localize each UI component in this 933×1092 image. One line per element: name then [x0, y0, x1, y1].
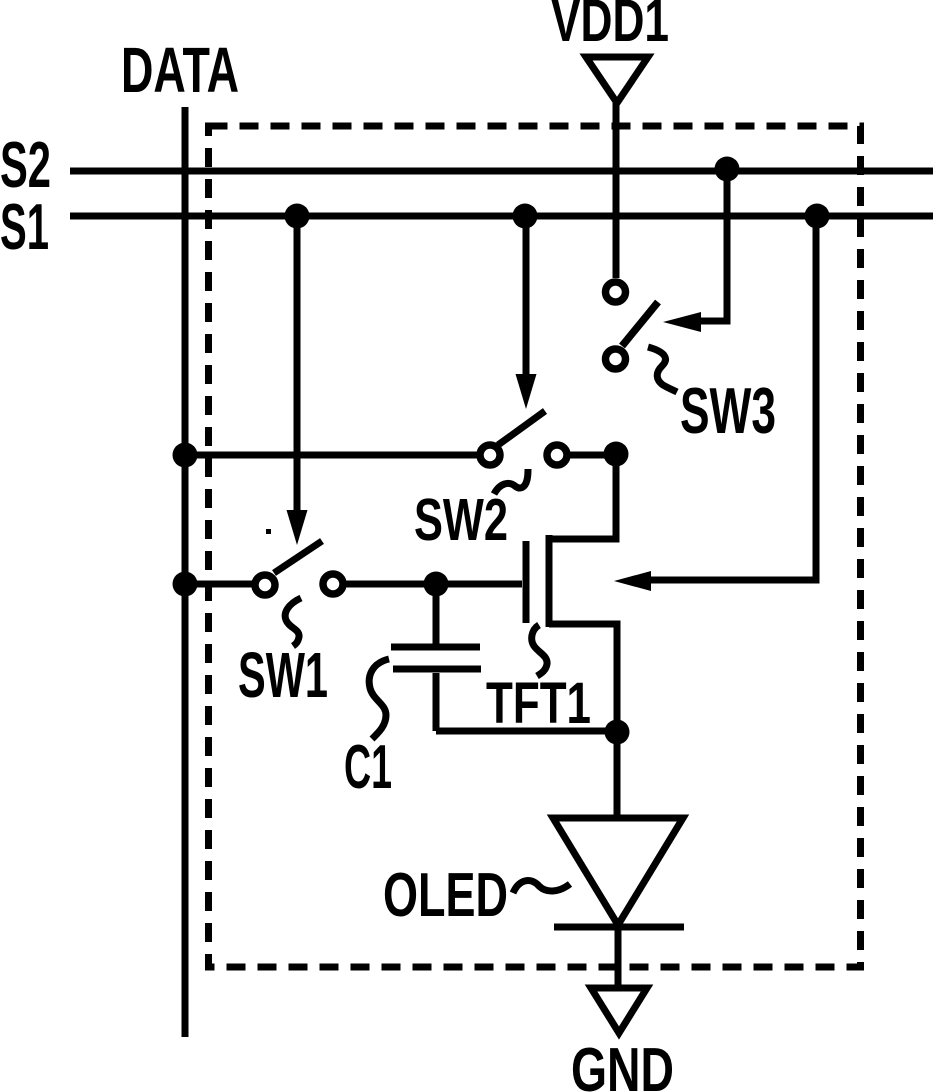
arrowhead into TFT1 — [614, 571, 651, 591]
ground symbol GND — [591, 988, 647, 1033]
wire S1 line — [70, 213, 933, 220]
wire DATA line — [182, 107, 189, 1037]
leader tilde OLED — [513, 881, 570, 893]
wire arrow from S1 down to SW1 — [294, 222, 301, 515]
arrowhead into SW3 — [663, 312, 701, 332]
wire VDD1 to SW3 — [613, 103, 620, 278]
svg-text:OLED: OLED — [383, 861, 508, 930]
switch SW3 top contact — [606, 282, 626, 302]
switch SW2 right contact — [547, 445, 567, 465]
junction on S1 at x817 — [805, 204, 830, 229]
wire C1 to TFT1 source — [436, 728, 617, 735]
diode OLED cathode bar — [554, 924, 684, 931]
svg-text:SW2: SW2 — [414, 487, 508, 553]
wire S2 line — [70, 168, 933, 175]
leader squiggle C1 — [369, 659, 389, 739]
power symbol VDD1 — [586, 57, 648, 103]
leader squiggle SW2 — [494, 469, 528, 494]
wire SW2 to node B — [568, 452, 616, 459]
leader squiggle TFT1 — [532, 625, 547, 676]
arrowhead above SW1 — [287, 510, 308, 545]
pixel boundary dashed box — [209, 126, 861, 967]
junction on S1 at x525 — [513, 204, 538, 229]
wire from S1 down to TFT1 arrow — [650, 222, 816, 580]
junction C1 top — [424, 572, 449, 597]
wire arrow from S1 down to SW2 — [523, 222, 530, 380]
junction node B — [604, 442, 629, 467]
leader squiggle SW3 — [648, 347, 677, 392]
switch SW3 arm — [622, 302, 658, 346]
wire SW1 to TFT1 gate — [344, 581, 522, 588]
leader squiggle SW1 — [285, 598, 301, 646]
arrowhead above SW2 — [516, 374, 537, 409]
junction on S2 — [715, 157, 740, 182]
switch SW2 left contact — [480, 445, 500, 465]
wire junction to OLED — [614, 738, 621, 818]
speck dot — [266, 529, 271, 534]
wire TFT1 source to junction — [549, 624, 617, 733]
junction on DATA at y584 — [173, 572, 198, 597]
capacitor C1 bottom wire — [433, 673, 440, 731]
switch SW1 left contact — [255, 575, 275, 595]
capacitor C1 top plate — [391, 644, 480, 651]
wire DATA to SW2 — [185, 452, 479, 459]
transistor TFT1 gate bar — [523, 541, 530, 623]
junction TFT1 source / OLED anode — [605, 720, 630, 745]
diode OLED triangle — [553, 818, 683, 925]
switch SW2 arm — [498, 411, 545, 445]
svg-text:S1: S1 — [0, 190, 49, 263]
wire S2 junction down to SW3 arrow — [699, 174, 727, 321]
svg-text:VDD1: VDD1 — [551, 0, 669, 54]
capacitor C1 bottom plate — [393, 666, 481, 673]
wire node B down to TFT1 drain — [549, 460, 616, 539]
switch SW1 arm — [274, 541, 322, 573]
svg-text:SW3: SW3 — [680, 374, 776, 447]
transistor TFT1 channel bar — [546, 535, 553, 627]
svg-text:DATA: DATA — [121, 34, 239, 106]
wire DATA to SW1 — [185, 581, 254, 588]
capacitor C1 top wire — [433, 590, 440, 644]
junction on S1 at x297 — [285, 204, 310, 229]
svg-text:SW1: SW1 — [238, 639, 328, 711]
switch SW1 right contact — [323, 574, 343, 594]
wire OLED to GND — [615, 927, 622, 988]
svg-text:TFT1: TFT1 — [486, 671, 591, 736]
svg-text:C1: C1 — [344, 733, 392, 802]
junction on DATA at y455 — [173, 443, 198, 468]
svg-text:GND: GND — [571, 1036, 674, 1092]
switch SW3 bottom contact — [606, 349, 626, 369]
